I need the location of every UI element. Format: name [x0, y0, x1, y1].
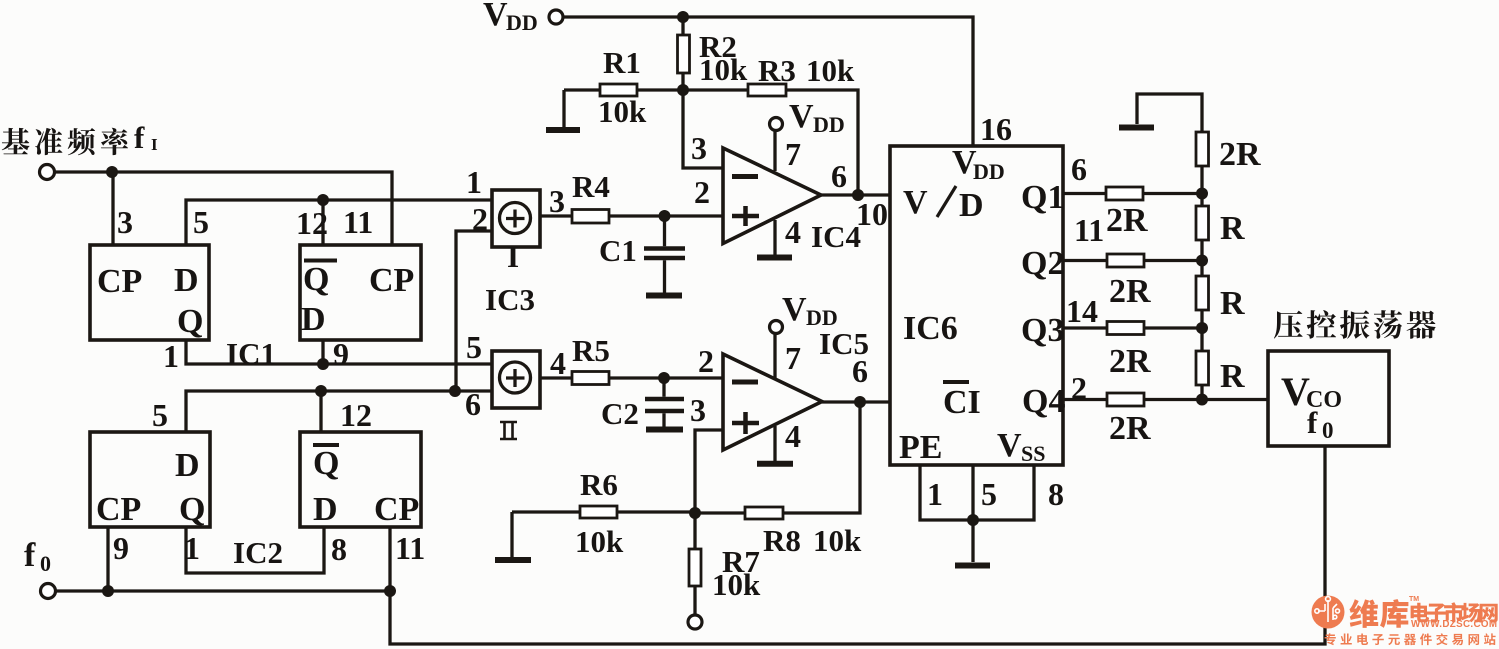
svg-text:R6: R6	[580, 467, 618, 502]
svg-text:6: 6	[1071, 151, 1087, 187]
svg-text:8: 8	[331, 531, 347, 567]
svg-text:V: V	[483, 0, 508, 33]
svg-text:2: 2	[1071, 370, 1087, 406]
svg-text:10k: 10k	[813, 523, 862, 558]
svg-text:R: R	[1220, 358, 1245, 395]
svg-text:9: 9	[333, 336, 349, 372]
svg-text:3: 3	[690, 392, 706, 428]
svg-text:CP: CP	[97, 263, 142, 300]
svg-text:SS: SS	[1021, 441, 1045, 466]
svg-text:TM: TM	[1409, 596, 1419, 603]
svg-text:10k: 10k	[806, 53, 855, 88]
svg-text:3: 3	[549, 183, 565, 219]
svg-text:10k: 10k	[699, 52, 748, 87]
svg-text:Q3: Q3	[1021, 312, 1064, 349]
svg-text:R4: R4	[572, 169, 610, 204]
svg-text:11: 11	[395, 530, 425, 566]
svg-text:DD: DD	[806, 305, 838, 330]
svg-text:Q: Q	[177, 303, 203, 340]
svg-text:4: 4	[550, 345, 566, 381]
svg-text:3: 3	[691, 130, 707, 166]
svg-text:Q4: Q4	[1022, 383, 1065, 420]
svg-text:2R: 2R	[1109, 410, 1151, 447]
svg-text:Q1: Q1	[1021, 179, 1064, 216]
svg-text:CP: CP	[374, 491, 419, 528]
svg-text:V: V	[789, 98, 814, 135]
svg-text:7: 7	[785, 136, 801, 172]
svg-text:R8: R8	[763, 523, 801, 558]
svg-text:5: 5	[981, 476, 997, 512]
svg-text:3: 3	[117, 204, 133, 240]
svg-text:I: I	[151, 135, 158, 154]
svg-text:8: 8	[1048, 476, 1064, 512]
svg-text:V: V	[782, 291, 807, 328]
svg-text:9: 9	[113, 530, 129, 566]
svg-text:V: V	[997, 427, 1022, 464]
svg-text:IC2: IC2	[233, 535, 283, 570]
svg-text:IC1: IC1	[226, 336, 276, 371]
svg-text:2: 2	[694, 174, 710, 210]
svg-text:Q: Q	[313, 445, 339, 482]
svg-text:R: R	[1220, 285, 1245, 322]
svg-text:f: f	[24, 537, 36, 574]
svg-text:Q: Q	[303, 261, 329, 298]
svg-text:CI: CI	[943, 384, 981, 421]
svg-text:DD: DD	[973, 159, 1005, 184]
svg-text:CP: CP	[369, 262, 414, 299]
svg-text:D: D	[174, 262, 199, 299]
svg-text:0: 0	[1322, 418, 1334, 443]
svg-text:Q: Q	[179, 491, 205, 528]
svg-text:10k: 10k	[598, 94, 647, 129]
svg-text:DD: DD	[506, 10, 538, 35]
svg-text:R: R	[1220, 210, 1245, 247]
svg-text:1: 1	[466, 164, 482, 200]
svg-text:16: 16	[980, 111, 1012, 147]
svg-text:IC3: IC3	[485, 282, 535, 317]
svg-text:D: D	[175, 447, 200, 484]
svg-text:V: V	[903, 184, 928, 221]
svg-text:12: 12	[296, 205, 328, 241]
svg-text:D: D	[301, 301, 326, 338]
svg-text:IC6: IC6	[903, 310, 958, 347]
svg-text:C1: C1	[599, 233, 637, 268]
svg-text:WWW.DZSC.COM: WWW.DZSC.COM	[1411, 619, 1497, 630]
svg-text:2R: 2R	[1109, 273, 1151, 310]
svg-text:1: 1	[163, 338, 179, 374]
svg-text:6: 6	[465, 386, 481, 422]
svg-text:R1: R1	[603, 45, 641, 80]
svg-text:R5: R5	[572, 333, 610, 368]
svg-text:5: 5	[466, 329, 482, 365]
svg-text:f: f	[134, 120, 145, 155]
svg-text:Q2: Q2	[1021, 245, 1064, 282]
svg-text:10k: 10k	[712, 567, 761, 602]
svg-text:2R: 2R	[1106, 202, 1148, 239]
svg-text:IC5: IC5	[819, 326, 869, 361]
svg-text:5: 5	[193, 204, 209, 240]
svg-text:11: 11	[343, 204, 373, 240]
svg-text:14: 14	[1066, 293, 1098, 329]
svg-text:2R: 2R	[1109, 343, 1151, 380]
svg-text:10k: 10k	[575, 524, 624, 559]
svg-text:2: 2	[698, 343, 714, 379]
svg-text:D: D	[313, 491, 338, 528]
svg-text:1: 1	[184, 530, 200, 566]
svg-text:f: f	[1307, 405, 1318, 440]
svg-text:C2: C2	[601, 396, 639, 431]
svg-text:D: D	[959, 187, 984, 224]
svg-text:6: 6	[831, 158, 847, 194]
svg-text:11: 11	[1074, 212, 1104, 248]
svg-text:IC4: IC4	[811, 219, 861, 254]
svg-text:12: 12	[340, 397, 372, 433]
svg-text:R3: R3	[758, 53, 796, 88]
svg-text:5: 5	[152, 397, 168, 433]
svg-text:DD: DD	[813, 112, 845, 137]
svg-text:7: 7	[785, 340, 801, 376]
svg-text:4: 4	[785, 418, 801, 454]
svg-text:0: 0	[40, 551, 51, 576]
svg-text:CP: CP	[96, 491, 141, 528]
svg-text:I: I	[507, 239, 519, 274]
svg-text:4: 4	[785, 214, 801, 250]
svg-text:1: 1	[927, 476, 943, 512]
svg-text:PE: PE	[899, 429, 942, 466]
svg-text:2R: 2R	[1219, 136, 1261, 173]
svg-text:2: 2	[472, 201, 488, 237]
